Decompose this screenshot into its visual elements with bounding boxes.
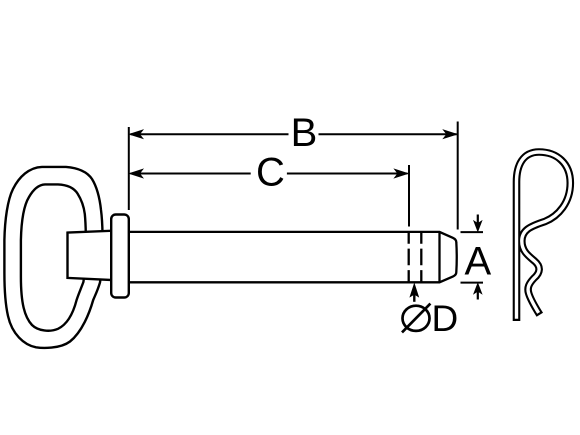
svg-text:D: D [432,298,459,339]
handle loop inner contour [21,184,86,330]
dimension C line right segment [287,173,408,175]
dimension A bottom arrow (up) [477,291,479,300]
dimension B line left segment [131,133,289,135]
R-clip (cotter pin) black outline stroke [517,152,571,321]
dimension A top arrow (down) [477,215,479,225]
dimension A top extension line [461,231,484,233]
svg-text:A: A [464,240,491,284]
dimension B extension line left [128,127,130,210]
R-clip white inner stroke [517,152,571,319]
dimension C extension line right [408,165,410,227]
dimension C left arrowhead [129,169,143,178]
dimension C line left segment [131,173,251,175]
svg-text:B: B [291,111,318,155]
hole dashed line left [408,232,410,282]
handle loop outer contour [4,167,102,348]
ØD leader arrow (up) [413,293,415,302]
chamfer line [438,232,440,282]
pin shaft with chamfered tip [128,232,457,282]
dimension B left arrowhead [129,130,143,139]
dimension B line right segment [319,133,457,135]
diameter symbol slash [402,304,430,333]
label ØD : diameter symbol circle [403,306,430,331]
svg-text:C: C [256,151,285,195]
dimension C right arrowhead [395,169,409,178]
hole dashed line right [420,232,422,282]
neck bar [68,231,117,281]
dimension B extension line right [457,122,459,230]
dimension B right arrowhead [443,130,457,139]
dimension A bottom extension line [461,282,484,284]
collar [111,215,129,298]
